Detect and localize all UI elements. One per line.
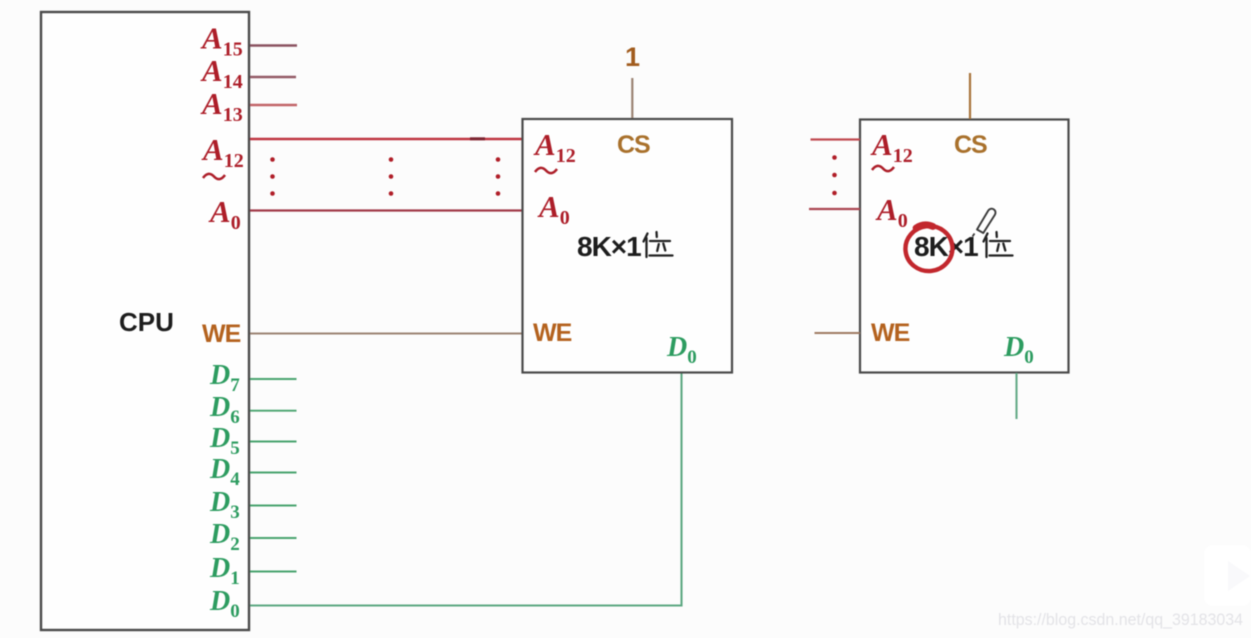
svg-text:CPU: CPU [119, 307, 174, 337]
wire D0 stub chip2 [1015, 373, 1017, 419]
svg-text:WE: WE [202, 320, 241, 348]
pin label D1 [209, 553, 240, 589]
watermark faint logo [1204, 545, 1251, 606]
pin label WE chip2 [871, 319, 910, 347]
pin label D5 [209, 423, 240, 459]
svg-text:WE: WE [533, 319, 572, 347]
svg-text:1: 1 [625, 42, 640, 72]
svg-text:CS: CS [954, 131, 987, 159]
pin label A0 chip1 [537, 189, 570, 229]
svg-text:https://blog.csdn.net/qq_39183: https://blog.csdn.net/qq_39183034 [998, 610, 1243, 629]
logic 1 level label [625, 42, 640, 72]
svg-text:8K×1: 8K×1 [577, 231, 641, 262]
pin label D7 [209, 360, 240, 396]
pin label A12 chip2 [870, 127, 913, 167]
pin label A15 [200, 21, 243, 61]
wire D0 net CPU to chip1 [250, 373, 682, 606]
wire CS pull-up chip1 [631, 78, 633, 118]
tilde range mark (CPU) [203, 174, 225, 179]
wire A14 stub [250, 76, 296, 78]
wire D7 stub [250, 378, 297, 380]
watermark url text [998, 610, 1243, 629]
pin label WE (CPU) [202, 320, 241, 348]
wire D3 stub [250, 505, 297, 507]
tilde range mark chip1 [535, 168, 557, 173]
wire D4 stub [250, 472, 297, 474]
capacity label 8Kx1bit chip2 [914, 231, 1013, 262]
ellipsis dots chip2 [832, 155, 837, 195]
wire A15 stub [250, 44, 297, 46]
pin label A0 chip2 [875, 192, 908, 232]
wire A12 bus line CPU to chip1 [250, 138, 523, 141]
pin label D6 [209, 392, 240, 428]
pin label A12 (CPU) [201, 132, 244, 172]
tilde range mark chip2 [872, 166, 894, 171]
wire CS pull-up chip2 [969, 73, 971, 119]
pin label CS chip1 [617, 131, 650, 159]
pin label D0 (CPU) [209, 586, 240, 622]
wire WE CPU to chip1 [250, 333, 522, 335]
pin label D2 [209, 519, 240, 555]
ellipsis dots column 1 [270, 157, 275, 196]
pin label CS chip2 [954, 131, 987, 159]
wire A0 stub chip2 [809, 208, 860, 210]
wire A0 bus line CPU to chip1 [250, 209, 523, 211]
svg-text:WE: WE [871, 319, 910, 347]
memory chip 2 (8K x 1 bit) [860, 120, 1069, 373]
wire A13 stub [250, 104, 297, 106]
ellipsis dots column 3 [496, 157, 501, 196]
CPU label [119, 307, 174, 337]
annotation pencil cursor [973, 209, 996, 237]
wire D5 stub [250, 441, 297, 443]
wire D1 stub [250, 571, 297, 573]
CPU block [41, 12, 249, 630]
pin label A12 chip1 [533, 127, 576, 167]
pin label A14 [200, 53, 243, 93]
pin label D0 chip2 [1003, 332, 1034, 368]
pin label D4 [209, 454, 240, 490]
svg-text:CS: CS [617, 131, 650, 159]
wire WE stub chip2 [815, 332, 861, 334]
pin label D0 chip1 [666, 332, 697, 368]
capacity label 8Kx1bit chip1 [577, 231, 673, 262]
ellipsis dots column 2 [389, 157, 394, 196]
wire D2 stub [250, 537, 297, 539]
memory chip 1 (8K x 1 bit) [523, 119, 733, 373]
annotation red circle around 8K [903, 224, 954, 274]
pin label A13 [200, 86, 243, 126]
pin label WE chip1 [533, 319, 572, 347]
wire A12 stub chip2 [811, 138, 861, 140]
pin label D3 [209, 487, 240, 523]
wire D6 stub [250, 410, 297, 412]
pin label A0 (CPU) [208, 194, 241, 234]
